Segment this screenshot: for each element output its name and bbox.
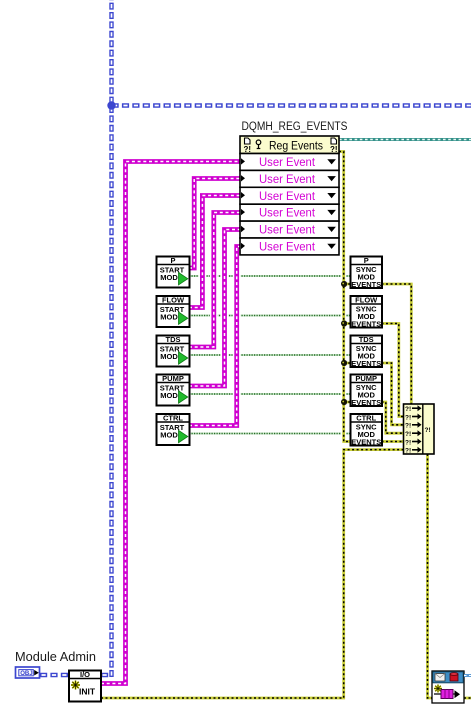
subVI: TDS SYNC MOD EVENTS <box>351 335 383 368</box>
olive wires group <box>101 152 471 699</box>
wire: PUMP START MOD event out to Reg Events row 5 <box>189 230 240 387</box>
junction dot TDS <box>341 360 347 366</box>
wire: PUMP SYNC error out to merge errors row 4 <box>382 402 404 433</box>
svg-text:?!: ?! <box>405 439 411 446</box>
wire: INIT error along bottom and up into merge errors row 6 <box>101 450 404 698</box>
svg-text:CTRL: CTRL <box>163 414 183 423</box>
junction dot on class wire <box>107 101 115 109</box>
wire: FLOW START MOD to FLOW SYNC MOD EVENTS <box>189 315 351 317</box>
svg-text:EVENTS: EVENTS <box>351 438 381 447</box>
svg-text:MOD: MOD <box>160 273 178 282</box>
svg-text:PUMP: PUMP <box>162 374 184 383</box>
wire: FLOW START MOD event out to Reg Events row 3 <box>189 196 240 308</box>
node: Reg Events row 2 <box>240 170 339 187</box>
subVI: P START MOD <box>157 256 190 288</box>
wire: queue refnum out of bottom-right node <box>464 674 471 677</box>
svg-text:User Event: User Event <box>259 223 316 237</box>
wire: CTRL START MOD event out to Reg Events row 6 <box>189 247 240 426</box>
svg-text:User Event: User Event <box>259 206 316 220</box>
junction dot FLOW <box>341 320 347 326</box>
svg-text:?!: ?! <box>330 145 338 154</box>
svg-text:FLOW: FLOW <box>355 296 378 305</box>
wire: event registration refnum out of Reg Events to right edge <box>339 138 471 141</box>
svg-text:INIT: INIT <box>79 687 96 697</box>
subVI: I/O INIT <box>69 670 101 702</box>
subVI: FLOW SYNC MOD EVENTS <box>351 296 383 329</box>
node: Reg Events row 4 <box>240 204 339 221</box>
node: Reg Events row 5 <box>240 221 339 238</box>
wire: TDS SYNC error out to merge errors row 3 <box>382 363 404 425</box>
svg-text:User Event: User Event <box>259 172 316 186</box>
page icon right <box>331 138 337 144</box>
init star icon <box>71 681 80 690</box>
subVI: TDS START MOD <box>157 335 190 367</box>
wire: error stub into P SYNC MOD EVENTS <box>344 283 351 286</box>
svg-text:Reg Events: Reg Events <box>269 139 323 153</box>
svg-text:?!: ?! <box>425 427 431 434</box>
junction dot PUMP <box>341 399 347 405</box>
magenta queue cylinder with arrow <box>434 693 456 695</box>
svg-text:EVENTS: EVENTS <box>351 398 381 407</box>
node: Reg Events row 6 <box>240 238 339 255</box>
wire: CTRL START MOD to CTRL SYNC MOD EVENTS <box>189 433 351 435</box>
svg-text:CTRL: CTRL <box>356 414 376 423</box>
wire: Module Admin class wire INIT up left edge and across top <box>101 0 471 677</box>
wire: P START MOD event out to Reg Events row 2 <box>189 179 240 269</box>
svg-text:EVENTS: EVENTS <box>351 280 381 289</box>
subVI: P SYNC MOD EVENTS <box>351 256 383 289</box>
svg-text:PUMP: PUMP <box>355 374 377 383</box>
register glyph <box>256 140 261 145</box>
subVI: FLOW START MOD <box>157 296 190 328</box>
svg-text:DQMH_REG_EVENTS: DQMH_REG_EVENTS <box>242 121 348 133</box>
svg-text:?!: ?! <box>405 431 411 438</box>
node: Merge Errors <box>404 404 435 455</box>
wire: INIT event out up to Reg Events row 1 <box>101 162 240 684</box>
wire: error stub into TDS SYNC MOD EVENTS <box>344 362 351 365</box>
svg-text:User Event: User Event <box>259 155 316 169</box>
wire: error out of bottom-right node to right edge <box>464 697 471 700</box>
svg-text:Module Admin: Module Admin <box>15 650 96 664</box>
svg-text:I/O: I/O <box>80 670 90 679</box>
subVI: CTRL SYNC MOD EVENTS <box>351 414 383 447</box>
svg-text:P: P <box>364 256 369 265</box>
svg-text:P: P <box>170 256 175 265</box>
wire: TDS START MOD to TDS SYNC MOD EVENTS <box>189 354 351 356</box>
svg-text:FLOW: FLOW <box>162 296 185 305</box>
magenta wires group <box>101 162 240 684</box>
wire: error stub into FLOW SYNC MOD EVENTS <box>344 322 351 325</box>
svg-text:?!: ?! <box>244 145 252 154</box>
svg-text:?!: ?! <box>405 414 411 421</box>
node: bottom-right DQMH start module (envelope/queue icon) <box>432 671 464 703</box>
svg-text:MOD: MOD <box>160 352 178 361</box>
yellow star <box>434 685 442 693</box>
subVI: PUMP SYNC MOD EVENTS <box>351 374 383 407</box>
wire: P START MOD to P SYNC MOD EVENTS (boolean dotted) <box>189 275 351 277</box>
wire: P SYNC error out to merge errors row 1 <box>382 284 412 404</box>
svg-text:User Event: User Event <box>259 240 316 254</box>
svg-text:User Event: User Event <box>259 189 316 203</box>
subVI: CTRL START MOD <box>157 414 190 446</box>
wire: merge errors out down to bottom-right node and right edge <box>428 454 433 698</box>
subVI: PUMP START MOD <box>157 374 190 406</box>
wire: Reg Events error out chain down to SYNC nodes <box>339 152 351 442</box>
svg-text:?!: ?! <box>405 448 411 455</box>
wire: error stub into PUMP SYNC MOD EVENTS <box>344 401 351 404</box>
wire: Module Admin class wire OBJ terminal to INIT <box>40 673 69 677</box>
svg-text:?!: ?! <box>405 423 411 430</box>
green wires group <box>189 276 351 434</box>
svg-text:EVENTS: EVENTS <box>351 359 381 368</box>
svg-text:MOD: MOD <box>160 431 178 440</box>
red cylinder <box>450 673 458 681</box>
svg-text:MOD: MOD <box>160 391 178 400</box>
svg-text:TDS: TDS <box>359 335 374 344</box>
envelope <box>435 674 445 682</box>
wire: CTRL SYNC error out to merge errors row 5 <box>382 440 404 443</box>
svg-text:EVENTS: EVENTS <box>351 320 381 329</box>
junction dot P <box>341 281 347 287</box>
svg-text:OBJ: OBJ <box>20 670 33 677</box>
wire: TDS START MOD event out to Reg Events row 4 <box>189 213 240 348</box>
page icon left <box>245 138 251 144</box>
node: Reg Events row 3 <box>240 187 339 204</box>
node: Reg Events row 1 <box>240 154 339 171</box>
node: Reg Events (register for events) header <box>240 136 339 154</box>
control terminal: Module Admin OBJ <box>16 667 40 678</box>
wire: PUMP START MOD to PUMP SYNC MOD EVENTS <box>189 393 351 395</box>
svg-text:?!: ?! <box>405 406 411 413</box>
svg-text:TDS: TDS <box>166 335 181 344</box>
teal wire group <box>339 138 471 141</box>
svg-text:MOD: MOD <box>160 313 178 322</box>
wire: FLOW SYNC error out to merge errors row 2 <box>382 324 404 417</box>
